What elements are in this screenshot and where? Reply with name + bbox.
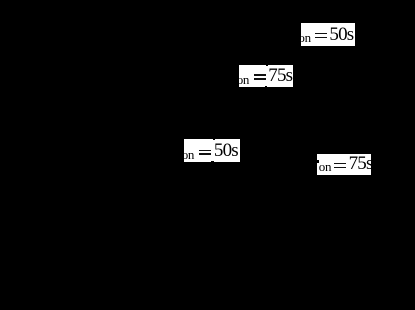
curve falling edge crossing label 2 bottom: [265, 86, 267, 88]
annotation label T_on = 50s (upper right): [301, 23, 355, 46]
curve falling edge crossing label 3 bottom: [211, 161, 214, 163]
curve falling edge crossing label 2 top: [266, 64, 268, 66]
annotation label T_on = 75s (mid left): [239, 65, 293, 88]
annotation label T_on = 50s (lower left): [184, 139, 240, 162]
sliver of italic T serif at left edge: [317, 160, 319, 163]
annotation label T_on = 75s (lower right): [317, 154, 371, 175]
curve falling edge crossing label 3 top: [213, 139, 216, 141]
